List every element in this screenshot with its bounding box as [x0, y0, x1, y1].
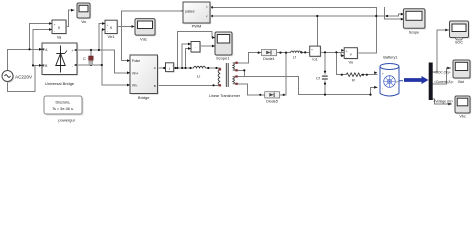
wire Va out to Va scope	[66, 10, 74, 26]
wire center tap	[239, 70, 299, 94]
wire Vo out up	[357, 7, 376, 53]
display SOC	[450, 21, 470, 45]
svg-text:-: -	[346, 55, 347, 59]
svg-text:Diode5: Diode5	[266, 100, 278, 104]
svg-text:+: +	[346, 49, 348, 53]
svg-text:<Voltage (V)>: <Voltage (V)>	[434, 100, 454, 104]
svg-text:R: R	[352, 77, 355, 82]
wire mux out to Scope1	[200, 45, 215, 47]
resistor R	[346, 73, 362, 83]
capacitor Cf	[316, 76, 328, 80]
svg-text:·: ·	[195, 46, 196, 50]
wire Vb1- stub	[102, 29, 105, 31]
battery output bus arrow	[399, 76, 429, 84]
wire top feedback Io1 to PWM in2	[210, 14, 404, 16]
svg-text:pulses: pulses	[185, 10, 195, 14]
wire Va+ tap	[30, 24, 53, 50]
wire Vin- routing	[102, 30, 130, 86]
svg-text:-: -	[54, 29, 55, 33]
wire jog to Vo minus	[341, 52, 344, 55]
scope Bat	[453, 60, 471, 84]
voltage measurement Vb1	[105, 20, 118, 39]
svg-text:C: C	[83, 57, 86, 61]
universal bridge U1	[42, 43, 78, 86]
svg-text:<SOC (%)>: <SOC (%)>	[434, 71, 451, 75]
wire Cf branch	[324, 52, 326, 94]
wire battery minus	[371, 87, 378, 94]
svg-text:<: <	[206, 5, 208, 9]
svg-text:Battery1: Battery1	[383, 55, 397, 59]
wire AC top to bridge A	[8, 49, 43, 70]
svg-text:Universal Bridge: Universal Bridge	[45, 81, 75, 86]
wire branch to Scope in2	[384, 7, 404, 19]
wire top feedback to PWM in1	[210, 6, 376, 8]
svg-text:Vb1: Vb1	[107, 34, 115, 39]
wire to bridge B	[33, 64, 42, 66]
scope Scope	[403, 9, 426, 35]
wire down to R rail	[335, 52, 337, 74]
wire tap to mux in2	[186, 49, 192, 69]
wire tap to Scope1 upper	[177, 31, 215, 68]
svg-text:Va: Va	[81, 19, 86, 24]
voltage measurement Va	[52, 20, 67, 40]
svg-text:Vbc: Vbc	[459, 115, 466, 119]
current measurement i	[166, 63, 175, 73]
wire Vb1 out to Vdc scope	[117, 26, 132, 28]
wire bus voltage out	[433, 99, 452, 104]
powergui block	[44, 96, 84, 123]
svg-text:-: -	[72, 65, 73, 69]
svg-text:+: +	[107, 23, 109, 27]
svg-text:Vin-: Vin-	[132, 84, 138, 88]
battery Battery1	[380, 55, 400, 96]
svg-text:Linear Transformer: Linear Transformer	[209, 94, 241, 98]
wire bottom rail	[299, 94, 371, 96]
current measurement Io1	[310, 46, 322, 62]
svg-text:Diode1: Diode1	[263, 57, 275, 61]
svg-text:+: +	[311, 48, 313, 52]
PWM generator block	[181, 2, 211, 29]
svg-text:+: +	[72, 49, 74, 53]
svg-text:powergui: powergui	[58, 118, 74, 123]
inductor Lr	[194, 66, 206, 78]
bus selector	[429, 63, 454, 104]
capacitor C on DC link	[83, 56, 93, 65]
svg-text:A: A	[154, 66, 156, 70]
svg-text:+: +	[54, 23, 56, 27]
wire bridge A out main line	[158, 67, 220, 69]
svg-text:-: -	[382, 86, 383, 90]
svg-text:-: -	[318, 53, 319, 57]
linear transformer T1	[209, 62, 241, 98]
wire Diode1 out to Lf node	[276, 51, 309, 53]
svg-text:B: B	[45, 64, 47, 68]
diode Diode5	[265, 92, 280, 104]
svg-text:Va: Va	[57, 35, 62, 40]
wire transformer T1 to Diode1	[239, 53, 262, 63]
wire tap to mux in1	[182, 44, 191, 68]
wire T4 to Diode5	[239, 84, 265, 95]
wire bridge B out to transformer	[158, 84, 220, 86]
svg-text:Discrete,: Discrete,	[56, 101, 71, 105]
svg-text:<Current (A)>: <Current (A)>	[434, 80, 454, 84]
svg-text:Pulse: Pulse	[132, 59, 140, 63]
svg-text:-: -	[107, 30, 108, 34]
input port arrowheads	[39, 6, 452, 106]
diode Diode1	[262, 49, 277, 60]
svg-text:SOC: SOC	[455, 41, 463, 45]
wire DC link cap branch	[90, 50, 92, 65]
wire Io1 signal up	[316, 16, 318, 46]
svg-text:AC220V: AC220V	[15, 74, 33, 79]
svg-text:Scope: Scope	[409, 31, 419, 35]
scope Va	[77, 3, 91, 24]
svg-text:+: +	[382, 71, 384, 75]
inductor Lf	[291, 51, 301, 60]
wire Vb1+ tap	[99, 24, 105, 51]
wire Io1 out to load node	[320, 51, 344, 53]
AC source AC220V	[2, 71, 33, 83]
svg-text:Bridge: Bridge	[138, 95, 150, 100]
scope Vbc	[455, 96, 471, 119]
svg-text:PWM: PWM	[192, 24, 202, 29]
wire DC+ rail	[77, 50, 130, 73]
svg-text:Vin+: Vin+	[132, 71, 139, 75]
wire bus current out	[433, 68, 451, 84]
wire PWM pulses to Bridge	[122, 11, 184, 61]
scope Scope1	[215, 32, 233, 61]
svg-text:Bat: Bat	[458, 80, 464, 84]
svg-text:i: i	[169, 66, 170, 71]
wire R rail to battery plus	[336, 74, 377, 76]
scope Vdc	[135, 19, 156, 42]
svg-text:v: v	[350, 51, 352, 56]
svg-text:Io1: Io1	[312, 58, 317, 62]
wire bus SOC out	[433, 30, 449, 72]
mux	[191, 42, 201, 54]
svg-text:Ts = 5e-06 s.: Ts = 5e-06 s.	[52, 107, 74, 111]
svg-text:B: B	[154, 84, 156, 88]
wire Va- tap	[33, 30, 52, 66]
wire DC- rail	[77, 64, 102, 66]
svg-text:Vdc: Vdc	[140, 36, 147, 41]
voltage measurement Vo	[344, 48, 358, 65]
DC-DC bridge subsystem	[130, 55, 159, 100]
svg-text:<: <	[206, 15, 208, 19]
svg-text:Vo: Vo	[348, 60, 353, 65]
svg-text:Scope1: Scope1	[216, 56, 230, 61]
wire AC bottom return	[8, 65, 36, 91]
wire Diode5 out junction	[280, 53, 287, 95]
svg-text:-: -	[172, 64, 173, 68]
